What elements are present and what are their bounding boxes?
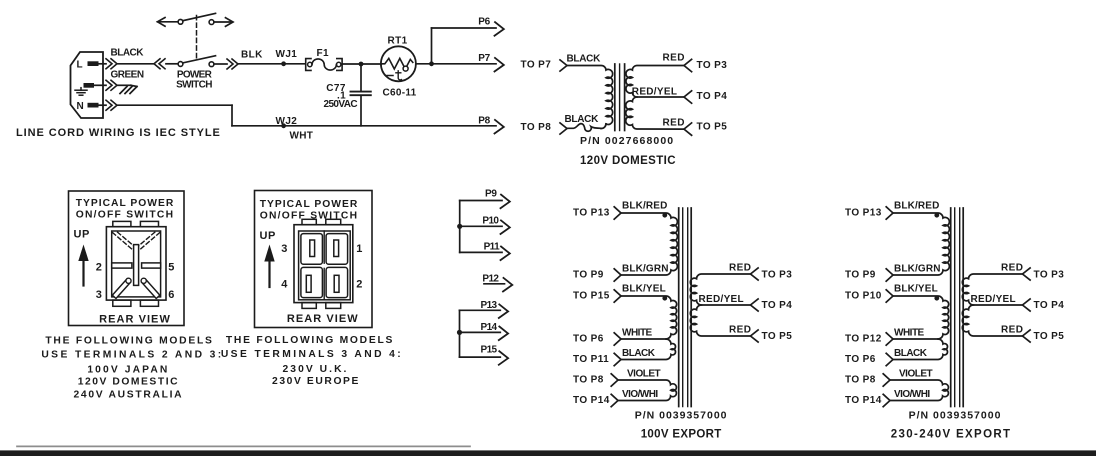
svg-text:P/N 0039357000: P/N 0039357000 [635, 409, 728, 421]
dashed mechanical link of switch [196, 16, 198, 61]
svg-text:BLK: BLK [241, 50, 263, 61]
svg-text:TO P3: TO P3 [762, 269, 793, 280]
primary winding 4 VIOLET/VIO-WHI (100V EXPORT) [618, 380, 676, 401]
lower-right contact bar (box1) [141, 278, 160, 298]
svg-text:TO P3: TO P3 [1034, 269, 1065, 280]
label C77 .1 250VAC [324, 83, 358, 110]
lead BLK/YEL to TO P10 (230-240V EXPORT) [845, 283, 938, 302]
transformer T1 secondary winding top [626, 66, 684, 98]
wire P11 [460, 242, 510, 261]
svg-text:TO P5: TO P5 [762, 331, 793, 342]
svg-text:TO P9: TO P9 [573, 270, 604, 281]
wire P14 with junction [457, 322, 508, 340]
up arrow (box2) [264, 245, 274, 288]
transformer core (230-240V EXPORT) [951, 208, 964, 407]
svg-text:P15: P15 [481, 344, 498, 355]
svg-text:P11: P11 [484, 242, 500, 253]
svg-text:TO P8: TO P8 [573, 375, 604, 386]
svg-text:P/N 0027668000: P/N 0027668000 [580, 135, 674, 147]
title TYPICAL POWER ON/OFF SWITCH (box1) [76, 198, 175, 221]
node WJ1 [276, 49, 298, 66]
svg-text:VIO/WHI: VIO/WHI [622, 389, 658, 400]
svg-text:RT1: RT1 [388, 36, 408, 47]
bus bracket P9-P11 [459, 201, 461, 253]
svg-text:F1: F1 [317, 48, 330, 59]
wire P10 with junction [457, 216, 510, 234]
power switch S1 upper pole with arrows [158, 13, 234, 26]
lead BLK/GRN to TO P9 (230-240V EXPORT) [845, 263, 941, 281]
exit arrow TO P5 (100V EXPORT) [751, 330, 793, 342]
svg-text:TO P10: TO P10 [845, 291, 882, 302]
bus bracket P13-P15 [459, 310, 461, 357]
svg-text:230-240V EXPORT: 230-240V EXPORT [891, 429, 1012, 441]
svg-text:REAR VIEW: REAR VIEW [99, 313, 171, 325]
lead VIO/WHI to TO P14 (100V EXPORT) [573, 389, 658, 407]
svg-text:TO P7: TO P7 [521, 60, 552, 71]
svg-text:THE FOLLOWING MODELS: THE FOLLOWING MODELS [226, 335, 394, 346]
wire L (BLACK) from connector to switch [99, 59, 179, 69]
svg-text:L: L [77, 60, 84, 71]
dashed contact diagonals (box1) [113, 232, 160, 250]
svg-text:BLACK: BLACK [567, 54, 602, 65]
pin earth [84, 83, 95, 88]
label POWER SWITCH [176, 70, 213, 91]
junction WJ2 [276, 116, 298, 128]
svg-text:TO P4: TO P4 [697, 91, 728, 102]
lead VIOLET to TO P8 (100V EXPORT) [573, 368, 661, 386]
svg-text:THE FOLLOWING MODELS: THE FOLLOWING MODELS [45, 336, 213, 347]
svg-text:230V U.K.: 230V U.K. [283, 364, 349, 375]
switch detail box 2 frame [255, 191, 373, 328]
svg-text:ON/OFF SWITCH: ON/OFF SWITCH [76, 209, 175, 220]
wire P9 [460, 189, 510, 209]
junction at C77 top [359, 62, 364, 67]
wire bottom primary with crossover loop [567, 124, 601, 132]
svg-text:TO P11: TO P11 [573, 354, 609, 365]
primary winding 3 (230-240V EXPORT) [893, 339, 948, 360]
svg-text:BLK/GRN: BLK/GRN [894, 263, 941, 274]
label TO P7 [521, 60, 568, 72]
exit arrow TO P5 (230-240V EXPORT) [1023, 330, 1065, 342]
connector arrow P7 [478, 53, 504, 72]
svg-text:TO P14: TO P14 [845, 395, 882, 406]
exit arrow TO P4 [684, 91, 727, 103]
lead WHITE to TO P12 (230-240V EXPORT) [845, 327, 925, 345]
svg-text:250VAC: 250VAC [324, 99, 358, 110]
svg-text:UP: UP [260, 230, 276, 242]
secondary winding top RED (230-240V EXPORT) [962, 274, 1022, 305]
connector arrow P8 [478, 115, 504, 133]
svg-text:LINE CORD WIRING IS IEC STYLE: LINE CORD WIRING IS IEC STYLE [16, 127, 221, 139]
svg-text:BLACK: BLACK [111, 48, 145, 59]
svg-text:RED: RED [1001, 263, 1023, 274]
label TO P8 [521, 122, 568, 134]
primary winding 4 VIOLET/VIO-WHI (230-240V EXPORT) [890, 380, 948, 401]
secondary winding bottom RED (100V EXPORT) [690, 305, 750, 336]
svg-text:WJ2: WJ2 [276, 116, 298, 127]
transformer T1 secondary winding bottom [626, 97, 684, 129]
svg-text:BLK/YEL: BLK/YEL [894, 283, 938, 294]
svg-text:RED: RED [729, 263, 751, 274]
capacitor C77 [351, 64, 371, 126]
primary winding 2 (100V EXPORT) [621, 296, 677, 339]
secondary winding bottom RED (230-240V EXPORT) [962, 305, 1022, 336]
svg-text:VIOLET: VIOLET [627, 368, 661, 379]
svg-text:RED: RED [729, 325, 751, 336]
exit arrow TO P3 (230-240V EXPORT) [1023, 268, 1065, 280]
rocker switch body (box2) rear view [294, 219, 353, 308]
svg-text:RED/YEL: RED/YEL [699, 294, 744, 305]
svg-text:6: 6 [168, 289, 174, 301]
lead BLK/RED to TO P13 (230-240V EXPORT) [845, 200, 940, 219]
transformer T1 core [615, 64, 625, 131]
rocker buttons (box2) [301, 234, 348, 298]
exit arrow TO P3 (100V EXPORT) [751, 268, 793, 280]
earth ground symbol inside connector [75, 88, 87, 96]
switch detail box 1 frame [69, 191, 185, 326]
exit arrow TO P4 (230-240V EXPORT) [1023, 299, 1065, 311]
svg-text:RED: RED [663, 117, 685, 128]
svg-text:P6: P6 [478, 17, 490, 28]
svg-text:P9: P9 [485, 189, 497, 200]
svg-text:1: 1 [356, 243, 362, 255]
rocker slots (box2) [306, 240, 339, 292]
svg-text:2: 2 [356, 278, 362, 290]
lead BLK/GRN to TO P9 (100V EXPORT) [573, 263, 669, 281]
svg-text:TYPICAL POWER: TYPICAL POWER [260, 199, 359, 210]
chassis ground symbol [120, 85, 137, 93]
svg-text:P13: P13 [481, 300, 498, 311]
up arrow (box1) [78, 245, 88, 286]
lead VIO/WHI to TO P14 (230-240V EXPORT) [845, 389, 930, 407]
svg-text:BLK/GRN: BLK/GRN [622, 263, 669, 274]
svg-text:TO P6: TO P6 [573, 334, 604, 345]
svg-text:P12: P12 [482, 273, 499, 284]
svg-text:VIOLET: VIOLET [899, 368, 933, 379]
lead BLK/YEL to TO P15 (100V EXPORT) [573, 283, 666, 302]
svg-text:2: 2 [96, 261, 102, 273]
svg-text:RED: RED [663, 53, 685, 64]
wire switch to fuse, label BLK [238, 50, 305, 64]
svg-text:SWITCH: SWITCH [176, 80, 212, 91]
svg-text:WHT: WHT [290, 131, 314, 142]
svg-text:100V JAPAN: 100V JAPAN [87, 365, 169, 376]
note block models terminals 3 and 4 [221, 335, 403, 387]
junction at P6 branch [429, 61, 434, 66]
fuse F1 [306, 48, 342, 70]
svg-text:BLACK: BLACK [622, 348, 656, 359]
svg-text:230V EUROPE: 230V EUROPE [272, 376, 360, 387]
svg-text:GREEN: GREEN [111, 70, 144, 81]
wire P15 [460, 344, 509, 365]
exit arrow TO P3 [684, 59, 727, 71]
svg-text:TO P3: TO P3 [697, 60, 728, 71]
lead BLACK to TO P11 (100V EXPORT) [573, 348, 656, 366]
svg-text:TO P8: TO P8 [845, 375, 876, 386]
lower-left contact bar (box1) [112, 278, 131, 298]
primary winding 3 (100V EXPORT) [621, 339, 676, 360]
svg-text:TO P13: TO P13 [573, 208, 610, 219]
transformer core (100V EXPORT) [679, 208, 692, 407]
wire GREEN from connector to chassis [94, 80, 131, 90]
svg-text:120V DOMESTIC: 120V DOMESTIC [78, 377, 179, 388]
svg-text:WHITE: WHITE [894, 327, 925, 338]
svg-text:RED/YEL: RED/YEL [971, 294, 1016, 305]
svg-text:VIO/WHI: VIO/WHI [894, 389, 930, 400]
terminal bar right (box1) [142, 263, 161, 268]
svg-text:RED: RED [1001, 325, 1023, 336]
svg-text:TO P9: TO P9 [845, 270, 876, 281]
connector arrow P6 [478, 17, 504, 36]
primary winding 1 (100V EXPORT) [621, 213, 677, 275]
pin L [77, 60, 99, 71]
primary winding 1 (230-240V EXPORT) [893, 213, 949, 275]
svg-text:TO P6: TO P6 [845, 354, 876, 365]
title TYPICAL POWER ON/OFF SWITCH (box2) [260, 199, 359, 222]
wire P13 [460, 300, 509, 318]
transformer T1 primary winding [567, 66, 613, 129]
IEC line cord connector J1 [71, 52, 104, 118]
rocker gap divider lines (box2) [323, 231, 325, 300]
rotary switch body (box1) rear view [106, 221, 166, 306]
lead BLK/RED to TO P13 (100V EXPORT) [573, 200, 668, 219]
svg-text:TO P14: TO P14 [573, 395, 610, 406]
svg-text:UP: UP [74, 229, 90, 241]
wire P12 [482, 273, 512, 291]
svg-text:WHITE: WHITE [622, 327, 653, 338]
center actuator bar (box1) [134, 245, 139, 286]
svg-text:240V AUSTRALIA: 240V AUSTRALIA [73, 390, 183, 401]
wire fuse to RT1 [343, 63, 381, 65]
thermistor RT1 [381, 46, 416, 81]
svg-text:RED/YEL: RED/YEL [632, 86, 677, 97]
svg-text:USE TERMINALS 3 AND 4:: USE TERMINALS 3 AND 4: [221, 349, 403, 360]
svg-text:100V EXPORT: 100V EXPORT [641, 429, 722, 441]
svg-text:5: 5 [168, 261, 174, 273]
svg-text:TO P4: TO P4 [762, 300, 793, 311]
svg-text:TO P4: TO P4 [1034, 300, 1065, 311]
secondary winding top RED (100V EXPORT) [690, 274, 750, 305]
note block models terminals 2 and 3 [41, 336, 223, 401]
svg-text:4: 4 [281, 278, 288, 290]
svg-text:BLK/RED: BLK/RED [622, 200, 668, 211]
lead WHITE to TO P6 (100V EXPORT) [573, 327, 653, 345]
svg-text:TO P13: TO P13 [845, 208, 882, 219]
svg-text:BLACK: BLACK [565, 114, 600, 125]
wire N (neutral) down to bottom rail [99, 100, 233, 126]
svg-text:WJ1: WJ1 [276, 49, 298, 60]
svg-text:3: 3 [96, 289, 102, 301]
svg-text:120V DOMESTIC: 120V DOMESTIC [580, 155, 676, 167]
lead VIOLET to TO P8 (230-240V EXPORT) [845, 368, 933, 386]
svg-text:P10: P10 [482, 216, 499, 227]
svg-text:P/N 0039357000: P/N 0039357000 [909, 409, 1002, 421]
bottom black bar [0, 450, 1096, 456]
bottom rail wire to P8 [232, 125, 496, 127]
svg-text:N: N [77, 101, 85, 112]
pin N [77, 101, 99, 112]
svg-text:TO P8: TO P8 [521, 122, 552, 133]
svg-text:REAR VIEW: REAR VIEW [287, 313, 359, 325]
svg-text:P7: P7 [478, 53, 490, 64]
svg-text:TO P15: TO P15 [573, 291, 610, 302]
primary winding 2 (230-240V EXPORT) [893, 296, 949, 339]
svg-text:BLK/RED: BLK/RED [894, 200, 940, 211]
wire RT1 to P7 arrow [416, 63, 496, 65]
svg-text:P8: P8 [478, 115, 490, 126]
svg-text:USE TERMINALS 2 AND 3:: USE TERMINALS 2 AND 3: [41, 350, 223, 361]
exit arrow TO P5 [684, 122, 727, 136]
svg-text:TO P12: TO P12 [845, 334, 882, 345]
wire branch up to P6 [432, 28, 497, 64]
separator line [17, 445, 470, 447]
terminal bar left (box1) [112, 263, 132, 268]
svg-text:P14: P14 [481, 322, 498, 333]
power switch S1 lower pole [178, 56, 238, 69]
lead BLACK to TO P6 (230-240V EXPORT) [845, 348, 928, 366]
svg-text:TO P5: TO P5 [1034, 331, 1065, 342]
svg-text:BLACK: BLACK [894, 348, 928, 359]
svg-text:TO P5: TO P5 [697, 122, 728, 133]
exit arrow TO P4 (100V EXPORT) [751, 299, 793, 311]
svg-text:C60-11: C60-11 [383, 87, 417, 98]
svg-text:3: 3 [281, 243, 287, 255]
svg-text:BLK/YEL: BLK/YEL [622, 283, 666, 294]
svg-text:TYPICAL POWER: TYPICAL POWER [76, 198, 175, 209]
